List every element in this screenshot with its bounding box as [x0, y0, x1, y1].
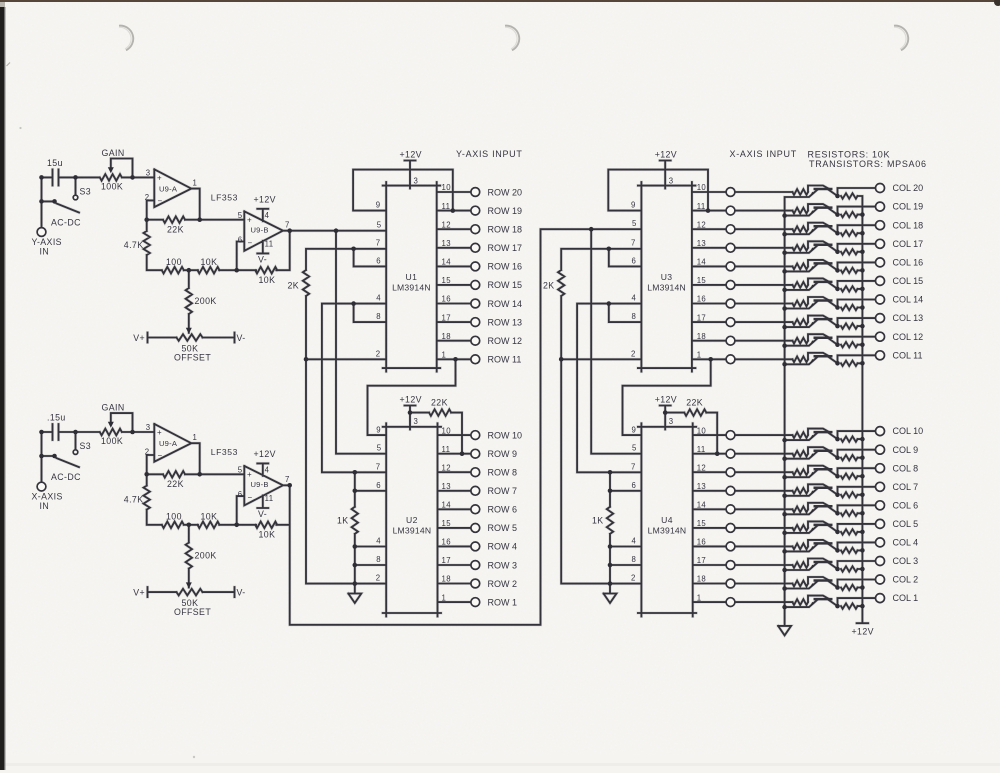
- svg-text:LM3914N: LM3914N: [648, 525, 687, 535]
- svg-text:COL 20: COL 20: [893, 183, 924, 193]
- svg-text:IN: IN: [40, 247, 50, 257]
- svg-text:11: 11: [697, 202, 706, 211]
- svg-text:3: 3: [414, 177, 419, 186]
- svg-text:LM3914N: LM3914N: [647, 282, 686, 292]
- svg-text:8: 8: [376, 312, 381, 321]
- svg-text:.15u: .15u: [47, 413, 66, 423]
- svg-text:9: 9: [376, 425, 381, 434]
- svg-text:6: 6: [376, 256, 381, 265]
- svg-text:U9-B: U9-B: [251, 225, 269, 234]
- svg-text:1: 1: [193, 433, 198, 442]
- svg-text:17: 17: [442, 556, 451, 565]
- svg-text:16: 16: [442, 538, 451, 547]
- svg-text:12: 12: [442, 463, 451, 472]
- svg-text:16: 16: [442, 295, 451, 304]
- svg-text:OFFSET: OFFSET: [174, 353, 211, 363]
- svg-text:16: 16: [697, 295, 706, 304]
- svg-text:U4: U4: [661, 515, 673, 525]
- svg-text:2: 2: [631, 574, 636, 583]
- svg-text:ROW 17: ROW 17: [488, 243, 523, 253]
- svg-text:ROW 19: ROW 19: [488, 206, 523, 216]
- svg-text:9: 9: [631, 201, 636, 210]
- svg-text:13: 13: [697, 239, 706, 248]
- svg-text:4: 4: [631, 294, 636, 303]
- svg-text:COL 8: COL 8: [893, 463, 919, 473]
- svg-text:ROW 7: ROW 7: [488, 486, 518, 496]
- svg-text:15: 15: [442, 519, 452, 528]
- svg-text:15u: 15u: [47, 158, 63, 168]
- svg-text:U2: U2: [406, 515, 418, 525]
- svg-text:18: 18: [442, 332, 451, 341]
- svg-text:6: 6: [238, 490, 243, 499]
- svg-text:ROW 11: ROW 11: [488, 355, 522, 365]
- svg-text:8: 8: [631, 312, 636, 321]
- svg-text:3: 3: [669, 417, 674, 426]
- svg-text:ROW 9: ROW 9: [488, 449, 518, 459]
- svg-text:15: 15: [697, 519, 707, 528]
- svg-text:9: 9: [631, 425, 636, 434]
- svg-text:100: 100: [166, 257, 182, 267]
- svg-text:V-: V-: [258, 255, 267, 265]
- svg-text:V-: V-: [258, 509, 267, 519]
- svg-text:4.7K: 4.7K: [124, 495, 144, 505]
- svg-text:+: +: [157, 428, 162, 437]
- svg-text:ROW 3: ROW 3: [488, 560, 518, 570]
- svg-text:S3: S3: [80, 187, 92, 197]
- svg-text:COL 2: COL 2: [893, 575, 919, 585]
- svg-text:7: 7: [631, 462, 636, 471]
- svg-text:LM3914N: LM3914N: [392, 282, 431, 292]
- svg-text:14: 14: [442, 501, 452, 510]
- svg-text:−: −: [248, 238, 253, 247]
- svg-text:ROW 12: ROW 12: [488, 336, 523, 346]
- svg-text:10: 10: [442, 426, 452, 435]
- svg-text:3: 3: [146, 423, 151, 432]
- svg-text:5: 5: [632, 444, 637, 453]
- svg-text:6: 6: [238, 236, 243, 245]
- svg-text:22K: 22K: [167, 479, 184, 489]
- svg-text:COL 18: COL 18: [893, 220, 924, 230]
- svg-text:10K: 10K: [259, 275, 276, 285]
- svg-text:COL 6: COL 6: [893, 500, 919, 510]
- svg-text:12: 12: [442, 220, 451, 229]
- svg-text:17: 17: [697, 313, 706, 322]
- svg-text:10: 10: [442, 183, 452, 192]
- svg-text:5: 5: [377, 444, 382, 453]
- svg-text:14: 14: [697, 258, 707, 267]
- svg-text:ROW 1: ROW 1: [488, 597, 518, 607]
- svg-text:ROW 6: ROW 6: [488, 505, 518, 515]
- svg-text:COL 4: COL 4: [893, 538, 919, 548]
- svg-text:+12V: +12V: [655, 150, 677, 160]
- svg-text:ROW 5: ROW 5: [488, 523, 518, 533]
- svg-text:13: 13: [442, 239, 451, 248]
- svg-text:TRANSISTORS: MPSA06: TRANSISTORS: MPSA06: [809, 159, 927, 169]
- svg-text:22K: 22K: [431, 397, 448, 407]
- svg-text:2: 2: [145, 447, 150, 456]
- svg-text:7: 7: [285, 475, 290, 484]
- svg-text:2: 2: [376, 349, 381, 358]
- svg-text:4: 4: [265, 466, 270, 475]
- svg-text:8: 8: [631, 555, 636, 564]
- svg-text:+12V: +12V: [254, 449, 276, 459]
- svg-text:10: 10: [697, 183, 707, 192]
- svg-text:COL 16: COL 16: [893, 258, 924, 268]
- svg-text:14: 14: [442, 258, 452, 267]
- svg-text:10K: 10K: [259, 530, 276, 540]
- svg-text:COL 9: COL 9: [893, 445, 919, 455]
- svg-text:5: 5: [632, 219, 637, 228]
- svg-text:4: 4: [265, 211, 270, 220]
- svg-text:+12V: +12V: [655, 394, 677, 404]
- svg-text:AC-DC: AC-DC: [51, 218, 81, 228]
- svg-text:COL 10: COL 10: [893, 426, 924, 436]
- svg-text:Y-AXIS INPUT: Y-AXIS INPUT: [456, 149, 523, 159]
- svg-text:11: 11: [442, 445, 451, 454]
- svg-text:200K: 200K: [195, 296, 217, 306]
- svg-text:11: 11: [442, 202, 451, 211]
- svg-text:+: +: [247, 215, 252, 224]
- svg-text:X-AXIS: X-AXIS: [32, 492, 63, 502]
- svg-text:15: 15: [697, 276, 707, 285]
- svg-text:7: 7: [376, 462, 381, 471]
- svg-text:COL 12: COL 12: [893, 332, 924, 342]
- svg-text:1: 1: [697, 351, 702, 360]
- svg-text:OFFSET: OFFSET: [174, 607, 211, 617]
- svg-text:4: 4: [631, 537, 636, 546]
- svg-text:10K: 10K: [201, 511, 218, 521]
- svg-text:5: 5: [377, 221, 382, 230]
- svg-text:16: 16: [697, 538, 706, 547]
- svg-text:8: 8: [376, 555, 381, 564]
- svg-text:COL 1: COL 1: [893, 593, 919, 603]
- svg-text:−: −: [158, 196, 163, 205]
- svg-text:U1: U1: [406, 272, 418, 282]
- svg-text:+12V: +12V: [400, 150, 422, 160]
- svg-text:COL 15: COL 15: [893, 276, 924, 286]
- svg-text:2K: 2K: [543, 281, 555, 291]
- svg-text:11: 11: [697, 445, 706, 454]
- svg-text:1: 1: [442, 593, 447, 602]
- svg-text:+12V: +12V: [852, 627, 874, 637]
- svg-text:6: 6: [631, 481, 636, 490]
- svg-text:COL 5: COL 5: [893, 519, 919, 529]
- svg-text:1: 1: [697, 593, 702, 602]
- svg-text:GAIN: GAIN: [102, 403, 125, 413]
- svg-text:2: 2: [145, 193, 150, 202]
- svg-text:COL 3: COL 3: [893, 556, 919, 566]
- svg-text:LF353: LF353: [211, 193, 238, 203]
- svg-text:6: 6: [376, 481, 381, 490]
- svg-text:7: 7: [285, 221, 290, 230]
- svg-text:3: 3: [414, 417, 419, 426]
- svg-text:GAIN: GAIN: [102, 148, 125, 158]
- svg-text:U9-B: U9-B: [251, 480, 269, 489]
- svg-text:15: 15: [442, 276, 452, 285]
- svg-text:9: 9: [376, 201, 381, 210]
- svg-text:V+: V+: [133, 588, 145, 598]
- svg-text:1K: 1K: [592, 516, 604, 526]
- svg-text:+12V: +12V: [400, 394, 422, 404]
- svg-text:COL 19: COL 19: [893, 202, 924, 212]
- svg-text:6: 6: [631, 256, 636, 265]
- svg-text:12: 12: [697, 463, 706, 472]
- svg-text:13: 13: [442, 482, 451, 491]
- svg-text:7: 7: [631, 239, 636, 248]
- svg-text:COL 17: COL 17: [893, 239, 924, 249]
- svg-text:V+: V+: [133, 333, 145, 343]
- svg-text:IN: IN: [40, 501, 50, 511]
- svg-text:13: 13: [697, 482, 706, 491]
- svg-text:+: +: [247, 470, 252, 479]
- svg-text:100: 100: [166, 512, 182, 522]
- svg-text:18: 18: [697, 575, 706, 584]
- svg-text:ROW 15: ROW 15: [488, 280, 523, 290]
- svg-text:ROW 2: ROW 2: [488, 579, 518, 589]
- svg-text:+12V: +12V: [254, 194, 276, 204]
- svg-text:22K: 22K: [686, 397, 703, 407]
- svg-text:4: 4: [376, 537, 381, 546]
- svg-text:Y-AXIS: Y-AXIS: [32, 237, 62, 247]
- svg-text:17: 17: [442, 313, 451, 322]
- svg-text:5: 5: [238, 466, 243, 475]
- svg-text:14: 14: [697, 501, 707, 510]
- svg-text:ROW 13: ROW 13: [488, 317, 523, 327]
- svg-text:U9-A: U9-A: [159, 184, 178, 193]
- svg-text:1K: 1K: [337, 516, 349, 526]
- svg-text:COL 11: COL 11: [893, 350, 923, 360]
- svg-text:18: 18: [442, 575, 451, 584]
- svg-text:7: 7: [376, 239, 381, 248]
- svg-text:+: +: [157, 173, 162, 182]
- svg-text:X-AXIS INPUT: X-AXIS INPUT: [730, 149, 797, 159]
- svg-text:COL 7: COL 7: [893, 482, 919, 492]
- svg-text:−: −: [248, 493, 253, 502]
- svg-text:−: −: [158, 451, 163, 460]
- svg-text:2: 2: [376, 574, 381, 583]
- svg-text:3: 3: [669, 177, 674, 186]
- svg-text:100K: 100K: [101, 436, 123, 446]
- svg-text:ROW 10: ROW 10: [488, 430, 523, 440]
- svg-text:18: 18: [697, 332, 706, 341]
- svg-text:1: 1: [442, 351, 447, 360]
- svg-text:2K: 2K: [287, 281, 299, 291]
- svg-text:AC-DC: AC-DC: [51, 472, 81, 482]
- svg-text:ROW 8: ROW 8: [488, 468, 518, 478]
- svg-text:1: 1: [193, 178, 198, 187]
- svg-text:COL 13: COL 13: [893, 313, 924, 323]
- svg-text:10K: 10K: [201, 257, 218, 267]
- svg-text:4: 4: [376, 294, 381, 303]
- svg-text:17: 17: [697, 556, 706, 565]
- svg-text:12: 12: [697, 220, 706, 229]
- svg-text:11: 11: [265, 240, 274, 249]
- svg-text:ROW 18: ROW 18: [488, 225, 523, 235]
- svg-text:ROW 14: ROW 14: [488, 299, 523, 309]
- svg-text:U3: U3: [661, 272, 673, 282]
- svg-text:11: 11: [265, 494, 274, 503]
- svg-text:U9-A: U9-A: [159, 439, 178, 448]
- svg-text:5: 5: [238, 211, 243, 220]
- svg-text:V-: V-: [237, 333, 246, 343]
- svg-text:LF353: LF353: [211, 447, 238, 457]
- svg-text:V-: V-: [237, 588, 246, 598]
- svg-text:10: 10: [697, 426, 707, 435]
- svg-text:ROW 20: ROW 20: [488, 187, 523, 197]
- svg-text:100K: 100K: [101, 182, 123, 192]
- svg-text:2: 2: [631, 349, 636, 358]
- svg-text:22K: 22K: [167, 225, 184, 235]
- svg-text:3: 3: [146, 168, 151, 177]
- svg-text:ROW 16: ROW 16: [488, 262, 523, 272]
- svg-text:COL 14: COL 14: [893, 295, 924, 305]
- svg-text:S3: S3: [80, 441, 92, 451]
- svg-text:4.7K: 4.7K: [124, 240, 144, 250]
- svg-text:200K: 200K: [195, 551, 217, 561]
- svg-text:ROW 4: ROW 4: [488, 542, 518, 552]
- svg-text:LM3914N: LM3914N: [393, 525, 432, 535]
